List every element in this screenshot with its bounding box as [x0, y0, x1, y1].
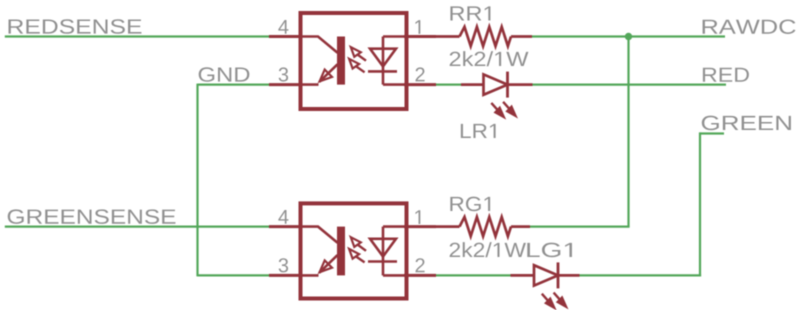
LED LG1 cathode bar [557, 262, 560, 288]
OK1 pin 4 lead [269, 35, 302, 38]
OK1 internal LED anode connector [383, 35, 404, 38]
wire GND to bottom pin 3 [198, 274, 270, 276]
OK1 pin number 3 [279, 67, 288, 81]
LED LR1 emission arrow 1 head [495, 107, 505, 118]
OK2 pin 4 lead [269, 225, 302, 228]
LED LG1 emission arrow 2 head [557, 297, 567, 308]
value 2k2/1W for RG1 [450, 242, 526, 257]
wire bottom pin 2 to LG1 anode [436, 274, 511, 276]
net label GREEN [702, 116, 791, 131]
OK2 pin number 1 [415, 210, 420, 224]
OK1 pin number 2 [416, 67, 425, 81]
resistor RR1 zigzag [460, 27, 512, 46]
OK1 emitter arrowhead [320, 70, 332, 82]
OK1 pin 2 lead [404, 83, 436, 86]
wire net RAWDC [532, 35, 725, 37]
OK1 light arrow lower shaft [356, 66, 365, 72]
OK2 phototransistor emitter slant [319, 255, 337, 273]
OK2 pin number 3 [279, 258, 288, 272]
OK2 light arrow upper shaft [358, 245, 366, 251]
wire net RED [533, 83, 727, 85]
OK2 internal LED cathode connector [383, 274, 404, 277]
LED LG1 emission arrow 1 head [545, 298, 555, 309]
wire top pin 2 to LR1 anode [436, 83, 461, 85]
OK2 light arrow lower shaft [356, 256, 365, 262]
OK2 pin 3 lead [269, 274, 302, 277]
OK1 pin number 4 [278, 20, 288, 34]
LED LG1 emission arrow 2 shaft [554, 293, 564, 304]
OK1 phototransistor emitter lead [302, 83, 319, 86]
LED LG1 anode lead [511, 274, 535, 277]
wire net GREEN stub [700, 132, 724, 134]
OK2 phototransistor collector [302, 227, 338, 243]
resistor RG1 right lead [511, 225, 530, 228]
OK1 light arrow upper head [351, 47, 361, 57]
LED LR1 cathode bar [506, 72, 509, 98]
OK1 internal LED cathode bar [368, 70, 397, 73]
LED LR1 triangle [484, 74, 508, 94]
OK1 internal LED axis [382, 37, 385, 85]
OK2 internal LED axis [382, 227, 385, 276]
resistor RG1 left lead [436, 225, 460, 228]
resistor RR1 right lead [511, 35, 532, 38]
wire net REDSENSE [5, 35, 269, 37]
LED LR1 emission arrow 1 shaft [491, 103, 501, 114]
LED LG1 triangle [534, 265, 558, 285]
resistor RG1 zigzag [460, 217, 512, 236]
OK1 phototransistor emitter slant [319, 64, 337, 82]
LED LR1 anode lead [461, 83, 484, 86]
OK2 pin number 4 [278, 210, 288, 224]
optocoupler OK1 body [301, 13, 407, 109]
OK1 pin 1 lead [404, 35, 436, 38]
OK2 internal LED cathode bar [368, 260, 397, 263]
wire net GREENSENSE [5, 226, 269, 228]
resistor RR1 left lead [436, 35, 460, 38]
label LG1 [527, 243, 572, 258]
LED LR1 emission arrow 2 shaft [503, 102, 512, 113]
OK1 pin 3 lead [269, 83, 302, 86]
optocoupler OK2 body [301, 203, 407, 298]
wire GND to top pin 3 [198, 83, 270, 85]
LED LR1 cathode lead [508, 83, 533, 86]
junction dot on RAWDC net [625, 33, 632, 40]
wire net GREEN vertical [699, 132, 701, 276]
OK2 pin 2 lead [404, 274, 436, 277]
OK2 internal LED anode connector [383, 225, 404, 228]
OK2 internal LED triangle [370, 239, 396, 257]
net label GND [199, 67, 250, 82]
value 2k2/1W for RR1 [450, 51, 529, 66]
LED LG1 cathode lead [558, 274, 580, 277]
OK1 phototransistor base bar [337, 37, 345, 85]
net label GREENSENSE [8, 209, 176, 224]
net label REDSENSE [9, 19, 142, 34]
LED LR1 emission arrow 2 head [507, 106, 517, 117]
OK2 light arrow lower head [349, 249, 359, 259]
OK1 pin number 1 [415, 20, 420, 34]
OK2 emitter arrowhead [320, 260, 332, 272]
OK1 light arrow upper shaft [358, 55, 366, 61]
wire GND vertical [196, 84, 198, 277]
LED LG1 emission arrow 1 shaft [542, 294, 552, 305]
OK2 pin number 2 [416, 258, 425, 272]
label LR1 [461, 124, 496, 138]
OK2 phototransistor emitter lead [302, 274, 319, 277]
label RG1 [450, 197, 490, 212]
wire RAWDC to RG1 [530, 226, 630, 228]
net label RED [703, 68, 749, 82]
wire RAWDC vertical to RG1 [627, 37, 629, 227]
OK2 pin 1 lead [404, 225, 436, 228]
OK1 internal LED cathode connector [383, 83, 404, 86]
label RR1 [450, 6, 490, 20]
OK2 light arrow upper head [351, 237, 361, 247]
OK2 phototransistor base bar [337, 227, 345, 276]
net label RAWDC [703, 19, 796, 34]
OK1 phototransistor collector [302, 37, 338, 53]
OK1 internal LED triangle [370, 49, 396, 67]
OK1 light arrow lower head [349, 59, 359, 69]
wire net GREEN horizontal [580, 274, 702, 276]
